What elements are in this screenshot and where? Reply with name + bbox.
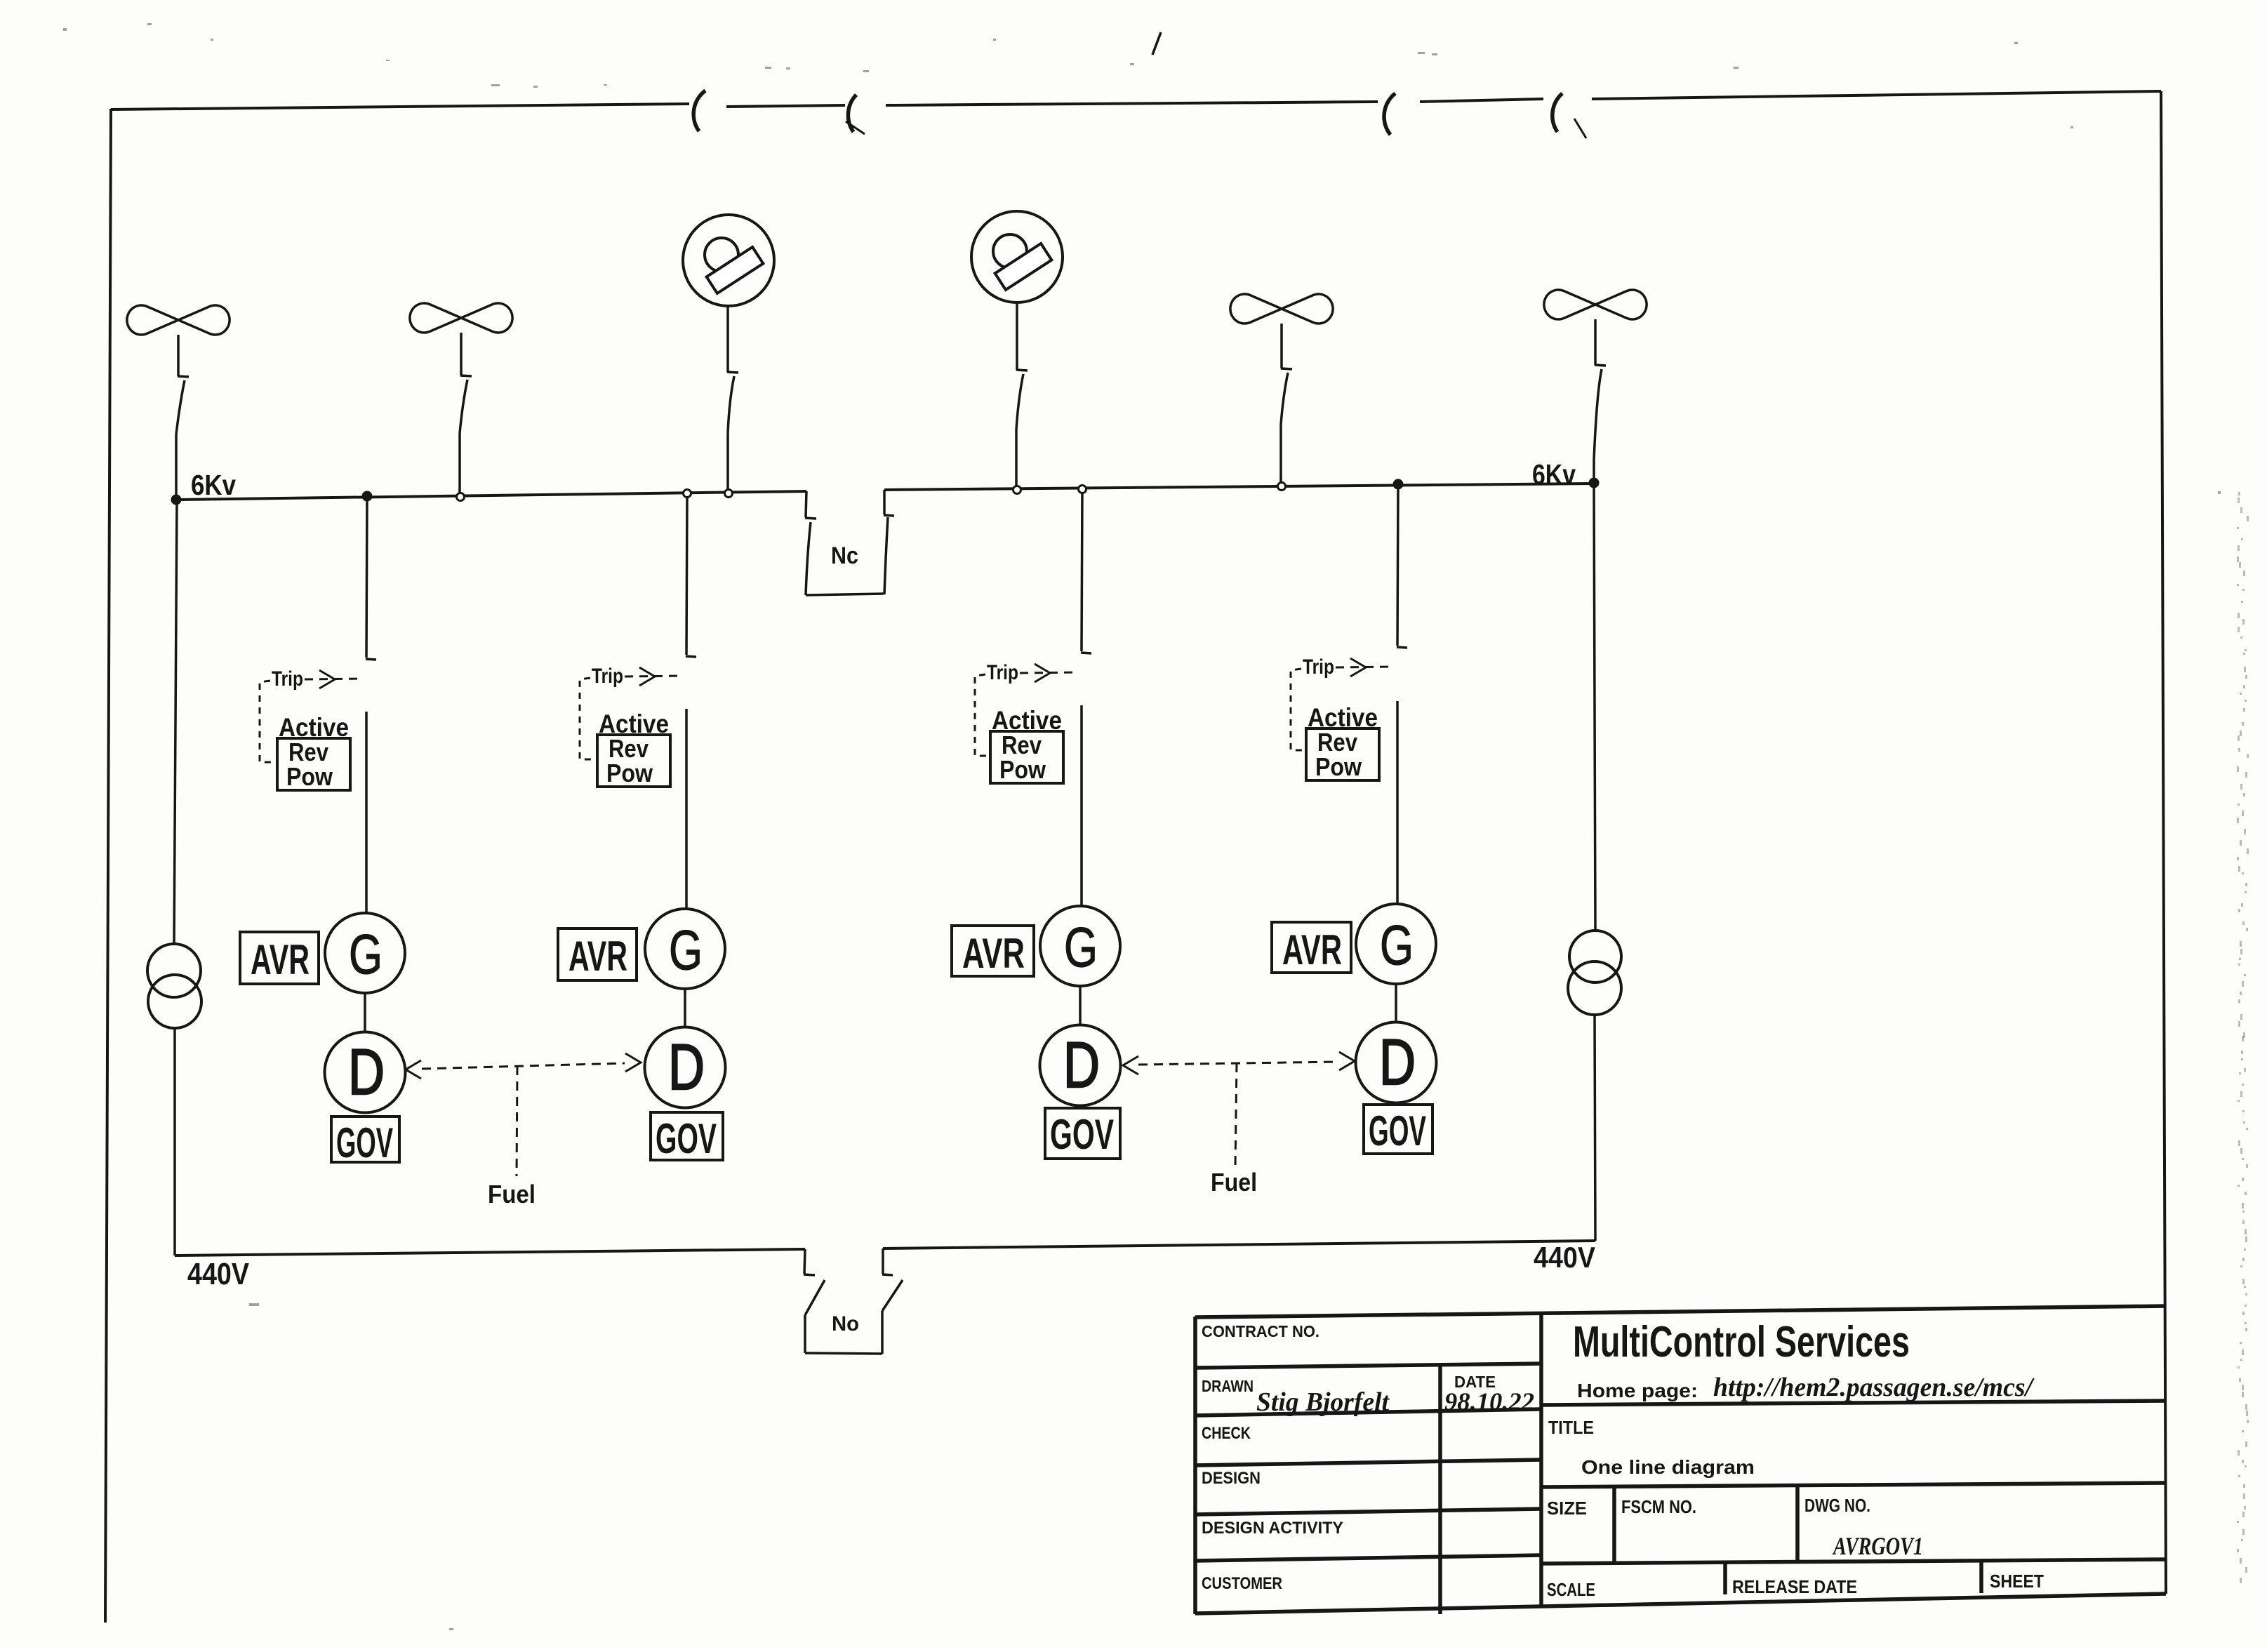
- svg-text:Stig Bjorfelt: Stig Bjorfelt: [1256, 1387, 1390, 1417]
- svg-text:RELEASE DATE: RELEASE DATE: [1732, 1576, 1857, 1597]
- diesel engine D2: [645, 1027, 726, 1108]
- title block DATE column divider: [1438, 1366, 1442, 1614]
- svg-text:AVR: AVR: [1282, 926, 1342, 973]
- svg-text:98.10.22: 98.10.22: [1444, 1387, 1534, 1415]
- trip dashed bracket branch 4: [1291, 669, 1308, 750]
- junction fan4 / bus right end: [1589, 478, 1600, 488]
- stray pen mark: [1152, 32, 1161, 55]
- svg-text:G: G: [669, 919, 703, 981]
- junction pump2: [1013, 486, 1021, 494]
- branch 3 line to generator: [1080, 705, 1083, 906]
- scan specks (decorative noise kept minimal): [249, 1303, 259, 1306]
- Rev Pow relay box branch 2: [597, 735, 670, 787]
- Rev Pow relay box branch 3: [990, 731, 1063, 783]
- svg-text:Fuel: Fuel: [1211, 1168, 1257, 1197]
- title block main divider: [1539, 1312, 1543, 1607]
- AVR box branch 3: [952, 926, 1034, 976]
- generator branch 3 feeder stub: [1082, 489, 1082, 651]
- svg-text:AVRGOV1: AVRGOV1: [1832, 1532, 1923, 1560]
- svg-text:GOV: GOV: [1369, 1107, 1426, 1154]
- generator G3: [1040, 906, 1120, 986]
- diesel engine D1: [325, 1032, 406, 1113]
- shaft G4-D4: [1395, 984, 1397, 1022]
- junction branch 2: [684, 490, 691, 498]
- svg-text:Trip: Trip: [592, 665, 623, 688]
- fan motor load 4: [1544, 290, 1595, 319]
- svg-text:SHEET: SHEET: [1990, 1571, 2044, 1592]
- svg-text:AVR: AVR: [569, 933, 627, 980]
- svg-text:DESIGN: DESIGN: [1202, 1469, 1261, 1488]
- junction branch 1: [362, 491, 373, 502]
- wire left transformer to 440V bus: [173, 1028, 176, 1255]
- svg-text:Nc: Nc: [831, 542, 858, 569]
- branch 2 line to generator: [685, 709, 688, 909]
- junction dot fan1: [171, 495, 182, 505]
- page border top (with break gaps): [111, 104, 689, 109]
- title block line under SIZE row: [1541, 1559, 2166, 1564]
- svg-text:CHECK: CHECK: [1202, 1424, 1251, 1443]
- svg-text:DRAWN: DRAWN: [1202, 1377, 1254, 1395]
- generator branch 4 feeder stub: [1397, 484, 1398, 646]
- svg-text:Pow: Pow: [286, 762, 333, 791]
- svg-text:Home page:: Home page:: [1577, 1380, 1698, 1401]
- GOV box branch 2: [651, 1112, 723, 1160]
- svg-text:DWG NO.: DWG NO.: [1804, 1495, 1870, 1516]
- diesel engine D3: [1040, 1025, 1121, 1106]
- trip dashed bracket branch 3: [975, 674, 992, 756]
- title block row line under DESIGN ACTIVITY: [1195, 1555, 1541, 1561]
- page border right: [2161, 91, 2166, 1594]
- transformer T1 (left): [147, 944, 201, 997]
- svg-text:Pow: Pow: [606, 759, 653, 787]
- AVR box branch 1: [240, 932, 319, 984]
- pump load 2: [971, 211, 1063, 302]
- trip dashed arrow branch 3: [1020, 672, 1076, 673]
- divider RELEASE DATE/SHEET: [1979, 1562, 1983, 1593]
- branch 1 line to generator: [365, 712, 368, 913]
- divider SCALE/RELEASE DATE: [1723, 1564, 1727, 1594]
- fan motor load 3: [1230, 294, 1282, 324]
- svg-text:AVR: AVR: [251, 936, 310, 983]
- generator G2: [645, 909, 725, 989]
- svg-text:6Kv: 6Kv: [1532, 458, 1576, 491]
- svg-text:G: G: [1064, 916, 1098, 978]
- svg-text:440V: 440V: [187, 1257, 250, 1291]
- cable break mark 1: [693, 91, 705, 131]
- wire 6Kv bus to left transformer: [174, 500, 177, 945]
- generator G1: [325, 913, 405, 993]
- svg-text:G: G: [1380, 914, 1414, 976]
- shaft G1-D1: [364, 993, 366, 1032]
- svg-text:CUSTOMER: CUSTOMER: [1202, 1574, 1282, 1593]
- 6Kv bus right segment: [884, 484, 1594, 490]
- trip dashed arrow branch 2: [625, 676, 681, 677]
- title block row line under CHECK: [1195, 1460, 1541, 1465]
- transformer T2 (right): [1569, 931, 1621, 982]
- Rev Pow relay box branch 4: [1306, 728, 1379, 780]
- diesel engine D4: [1356, 1022, 1437, 1103]
- svg-text:GOV: GOV: [336, 1119, 393, 1166]
- GOV box branch 4: [1364, 1105, 1432, 1154]
- 440V bus right segment: [883, 1241, 1595, 1248]
- svg-text:GOV: GOV: [1050, 1111, 1114, 1158]
- junction branch 3: [1079, 486, 1086, 493]
- cable break mark 2: [848, 95, 856, 132]
- svg-text:Pow: Pow: [1315, 752, 1362, 781]
- AVR box branch 4: [1272, 922, 1351, 973]
- svg-text:Trip: Trip: [987, 661, 1018, 684]
- divider FSCM/DWG: [1795, 1487, 1800, 1564]
- trip dashed bracket branch 1: [260, 681, 277, 762]
- svg-text:D: D: [1063, 1030, 1100, 1101]
- svg-text:6Kv: 6Kv: [191, 469, 236, 501]
- junction pump1: [725, 490, 733, 498]
- generator branch 1 feeder stub: [366, 496, 367, 658]
- svg-text:D: D: [348, 1037, 385, 1108]
- svg-text:440V: 440V: [1534, 1241, 1595, 1274]
- title block row line under DESIGN: [1195, 1509, 1541, 1514]
- fuel dashed link right pair: [1138, 1062, 1339, 1065]
- svg-text:D: D: [1379, 1027, 1416, 1098]
- svg-text:D: D: [668, 1032, 705, 1103]
- AVR box branch 2: [558, 928, 637, 980]
- fan motor load 1: [127, 305, 178, 335]
- shaft G3-D3: [1079, 986, 1082, 1025]
- junction fan2: [457, 493, 465, 501]
- svg-text:http://hem2.passagen.se/mcs/: http://hem2.passagen.se/mcs/: [1713, 1373, 2035, 1402]
- svg-text:Trip: Trip: [272, 667, 303, 691]
- 440V bus left segment: [175, 1249, 805, 1255]
- wire 6Kv bus to right transformer: [1594, 484, 1595, 931]
- svg-text:GOV: GOV: [656, 1115, 717, 1162]
- svg-text:AVR: AVR: [962, 930, 1025, 977]
- title block line under Home page row: [1541, 1401, 2166, 1405]
- junction fan3: [1278, 483, 1286, 491]
- svg-text:DESIGN ACTIVITY: DESIGN ACTIVITY: [1202, 1519, 1343, 1538]
- cable break mark 4: [1553, 93, 1562, 132]
- wire right transformer to 440V bus: [1595, 1015, 1595, 1241]
- svg-text:SCALE: SCALE: [1547, 1579, 1595, 1600]
- pump load 1: [683, 215, 774, 306]
- svg-text:One line diagram: One line diagram: [1581, 1456, 1755, 1478]
- svg-text:FSCM NO.: FSCM NO.: [1621, 1496, 1696, 1517]
- fuel dashed link left pair: [422, 1063, 625, 1069]
- generator branch 2 feeder stub: [686, 493, 687, 655]
- title block line under TITLE row: [1541, 1483, 2166, 1487]
- svg-text:G: G: [349, 923, 383, 985]
- svg-text:CONTRACT NO.: CONTRACT NO.: [1202, 1322, 1319, 1340]
- fuel stem right: [1235, 1063, 1237, 1165]
- trip dashed arrow branch 4: [1336, 667, 1392, 667]
- svg-text:SIZE: SIZE: [1547, 1498, 1587, 1519]
- divider SIZE/FSCM: [1612, 1487, 1616, 1564]
- 6Kv bus left segment: [177, 491, 806, 500]
- GOV box branch 3: [1045, 1108, 1120, 1159]
- svg-text:Pow: Pow: [999, 755, 1046, 784]
- title block row line under DRAWN/DATE: [1195, 1409, 1541, 1415]
- bus-tie breaker No: [804, 1249, 805, 1274]
- shaft G2-D2: [684, 989, 686, 1027]
- fuel stem left: [517, 1066, 517, 1176]
- fan motor load 2: [410, 303, 461, 333]
- title block outline: [1195, 1306, 2166, 1317]
- GOV box branch 1: [331, 1117, 399, 1162]
- page border left: [105, 109, 111, 1623]
- branch 4 line to generator: [1396, 701, 1399, 904]
- svg-text:Fuel: Fuel: [488, 1180, 536, 1208]
- svg-text:Trip: Trip: [1303, 655, 1334, 679]
- Rev Pow relay box branch 1: [277, 738, 350, 790]
- trip dashed arrow branch 1: [305, 679, 361, 679]
- svg-text:No: No: [832, 1312, 859, 1335]
- title block row line under CONTRACT: [1195, 1364, 1541, 1368]
- generator G4: [1356, 904, 1436, 984]
- trip dashed bracket branch 2: [580, 678, 597, 759]
- cable break mark 3: [1384, 93, 1395, 135]
- bus-tie breaker Nc: [806, 491, 806, 517]
- svg-text:TITLE: TITLE: [1548, 1417, 1594, 1438]
- junction branch 4: [1393, 479, 1404, 490]
- svg-text:MultiControl Services: MultiControl Services: [1573, 1318, 1910, 1366]
